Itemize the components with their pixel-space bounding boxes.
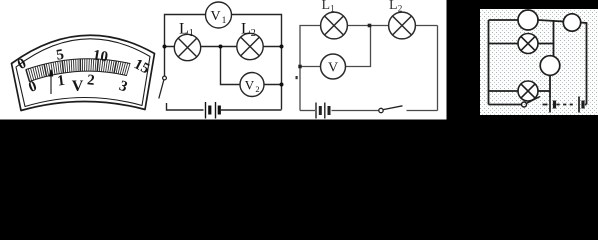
junction node dots circuit 3: [298, 24, 371, 69]
lamp L2: [237, 33, 263, 59]
meter scale band top arc: [26, 59, 130, 70]
svg-text:2: 2: [86, 72, 95, 89]
wire: left rail upper to switch pivot: [164, 47, 166, 77]
meter scale hatch ticks: [26, 59, 130, 82]
lamp L1 of circuit 3: [321, 12, 348, 39]
svg-text:10: 10: [92, 47, 109, 65]
svg-text:1: 1: [222, 15, 227, 25]
wire: meter drop to lamp row 2: [549, 75, 551, 97]
lamp L2 of circuit 3: [389, 12, 416, 39]
thumbnail battery: [550, 97, 583, 113]
meter outer frame: [12, 35, 155, 110]
dashed battery link wire: [557, 104, 577, 106]
svg-text:V: V: [328, 61, 338, 76]
switch S (open) of circuit 2: [159, 76, 167, 98]
switch (open) of circuit 3: [379, 106, 403, 113]
junction node dots circuit 2: [163, 45, 284, 87]
svg-text:V: V: [210, 9, 220, 24]
wire: left rail: [488, 20, 490, 105]
wire: V branch: [300, 66, 321, 68]
svg-text:V: V: [72, 78, 84, 95]
voltmeter V2: [240, 73, 264, 97]
lamp (X) upper: [518, 34, 538, 54]
wire: mid vertical junction: [553, 20, 555, 57]
meter inner frame: [16, 39, 150, 107]
wire: battery to switch: [332, 110, 379, 112]
wire: switch to right corner: [407, 110, 438, 112]
wire: top side: [165, 15, 282, 110]
wire: V2 to right rail: [264, 84, 282, 86]
wire: top right to rail: [581, 23, 587, 105]
meter circle top-right: [563, 14, 580, 31]
wire: outer loop top and rails: [300, 26, 438, 111]
lamp L1: [174, 34, 200, 60]
wire: top row: [489, 19, 519, 21]
battery of circuit 2: [206, 102, 220, 119]
meter bottom scale numbers 0 1 2 3 and V unit: [26, 72, 129, 96]
meter top scale numbers 0 5 10 15: [15, 47, 152, 78]
stray scan speck: [296, 76, 298, 79]
thumbnail card background: [480, 9, 598, 115]
meter needle: [50, 70, 53, 94]
wire: bottom with battery gap: [167, 103, 204, 110]
voltmeter V of circuit 3: [321, 54, 346, 79]
wire: lamp row 1: [489, 43, 519, 45]
lamp (X) lower: [518, 81, 538, 101]
wire: bottom row: [489, 104, 522, 106]
meter scale band bottom arc: [30, 71, 127, 81]
wire: bottom left to battery: [300, 110, 315, 112]
battery of circuit 3: [316, 103, 329, 119]
ammeter/meter circle top-left: [518, 10, 538, 30]
wire: middle row through lamps: [165, 46, 282, 48]
voltmeter V1: [206, 2, 232, 28]
svg-text:2: 2: [255, 84, 259, 94]
meter circle middle: [540, 56, 560, 76]
wire: V2 branch: [221, 47, 241, 85]
svg-text:V: V: [245, 78, 255, 93]
wire: lamp row 2: [489, 90, 519, 92]
thumbnail switch: [522, 97, 541, 108]
white paper background (left sheet): [0, 0, 447, 120]
